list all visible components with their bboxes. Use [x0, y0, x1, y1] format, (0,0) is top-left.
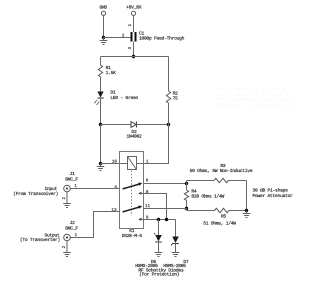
ground under D6: [155, 253, 163, 257]
svg-text:(For Protection): (For Protection): [139, 272, 179, 278]
svg-text:1N4002: 1N4002: [126, 134, 142, 140]
wire junction kink down to R5 row: [186, 209, 188, 211]
svg-text:J1: J1: [70, 171, 76, 177]
wire R1 to D1: [100, 77, 102, 92]
wire pin 6 stub: [144, 183, 187, 185]
ground under J1: [63, 192, 71, 208]
LED D1: [94, 89, 138, 105]
wire junction kink up to R3 row: [186, 181, 188, 184]
wire C1 bottom to top rail: [133, 42, 135, 57]
svg-text:8: 8: [146, 190, 149, 195]
relay fixed contact pin 9: [139, 218, 141, 220]
wire J2 to relay pin 13: [70, 212, 119, 238]
resistor R3: [187, 163, 253, 183]
wire D7 corner down: [175, 220, 177, 237]
wire D2 row right: [137, 124, 169, 126]
wire D2 row left: [101, 124, 132, 126]
wire GND terminal down: [103, 15, 105, 37]
svg-text:(From Transceiver): (From Transceiver): [13, 191, 58, 197]
svg-text:3: 3: [128, 47, 133, 50]
schottky diode D7: [171, 237, 178, 253]
relay K1 coil: [128, 157, 137, 170]
ground at attenuator output: [243, 211, 251, 218]
svg-text:1: 1: [128, 24, 133, 27]
relay K1 body: [120, 152, 144, 229]
svg-text:R5: R5: [221, 213, 227, 219]
ground under left branch: [97, 164, 105, 171]
svg-text:Power Attenuator: Power Attenuator: [253, 193, 294, 199]
wire pin 8 stub inner: [142, 193, 144, 195]
node: right D2 junction: [167, 123, 170, 126]
svg-text:GND: GND: [100, 5, 108, 11]
svg-text:50 Ohms, 5W Non-Inductive: 50 Ohms, 5W Non-Inductive: [190, 168, 253, 174]
svg-text:(To Transverter): (To Transverter): [20, 237, 60, 243]
wire +8V_RX down to C1: [133, 15, 135, 32]
svg-text:1: 1: [146, 160, 149, 165]
resistor R1: [98, 65, 116, 77]
node: pin6/R3/R4 junction: [185, 182, 188, 185]
relay dashed actuator line: [131, 171, 133, 216]
node: GND junction: [102, 36, 105, 39]
svg-text:51 Ohms, 1/4W: 51 Ohms, 1/4W: [203, 220, 236, 226]
ground under GND junction: [100, 38, 108, 45]
terminal +8V_RX: [126, 5, 142, 16]
schottky diode D6: [154, 233, 161, 253]
wire right branch top: [168, 57, 170, 92]
svg-text:BNC_F: BNC_F: [65, 176, 78, 182]
resistor R5: [187, 208, 247, 226]
ground under J2: [63, 241, 71, 257]
svg-text:found on the internet site: found on the internet site: [216, 102, 294, 108]
svg-text:4: 4: [114, 185, 117, 190]
connector J1 BNC_F: [62, 171, 78, 199]
node: D7 junction: [165, 218, 168, 221]
svg-text:75: 75: [173, 95, 179, 101]
wire top rail: [101, 56, 169, 58]
node: pin16 junction: [99, 162, 102, 165]
svg-text:+8V_RX: +8V_RX: [126, 5, 142, 11]
wire pin 9 row: [144, 219, 176, 221]
watermark: [216, 87, 294, 108]
resistor R2: [166, 91, 178, 103]
node: left D2 junction: [99, 123, 102, 126]
relay contact arm 4-6: [123, 183, 143, 189]
svg-text:D1: D1: [110, 89, 116, 95]
connector J2 BNC_F: [62, 220, 78, 248]
wire pin 9 stub inner: [142, 219, 144, 221]
wire pin 11 to junction: [144, 208, 187, 210]
svg-text:LED - Green: LED - Green: [110, 95, 138, 101]
node: pin11/R4/R5 junction: [185, 207, 188, 210]
svg-text:30 dB Pi-shape: 30 dB Pi-shape: [253, 188, 289, 194]
svg-text:1000p Feed-Through: 1000p Feed-Through: [139, 36, 185, 42]
wire pin1 inside stub: [137, 163, 144, 165]
ground under D7: [172, 253, 180, 257]
relay fixed contact pin 8: [139, 192, 141, 194]
svg-text:BNC_F: BNC_F: [65, 225, 78, 231]
wire J1 to relay pin 4: [70, 188, 119, 190]
node: D6 junction: [157, 218, 160, 221]
wire pin16 junction to relay coil: [101, 163, 128, 165]
wire left branch to pin16 junction: [100, 125, 102, 164]
resistor R4: [184, 184, 224, 209]
terminal GND: [100, 5, 108, 16]
svg-text:2: 2: [62, 197, 67, 200]
wire R2 to pin1 row: [144, 103, 169, 164]
svg-text:J2: J2: [70, 220, 76, 226]
svg-text:2: 2: [62, 245, 67, 248]
relay contact arm 13-11: [123, 206, 143, 212]
wire left branch upper: [100, 57, 102, 66]
node: attenuator ground junction: [245, 209, 248, 212]
svg-text:820 Ohms 1/4W: 820 Ohms 1/4W: [191, 194, 224, 200]
svg-text:2: 2: [122, 33, 125, 38]
svg-text:13: 13: [111, 208, 117, 213]
svg-text:R4: R4: [191, 188, 197, 194]
wire R3 right corner down: [246, 181, 248, 211]
svg-text:16: 16: [112, 160, 118, 165]
svg-text:6: 6: [146, 178, 149, 183]
node: top rail junction: [132, 55, 135, 58]
wire pin 8 L-shape down: [144, 194, 167, 220]
svg-text:1.5K: 1.5K: [106, 70, 117, 76]
svg-text:DS2E-M-5: DS2E-M-5: [122, 233, 143, 239]
capacitor C1 1000p Feed-Through: [122, 24, 185, 50]
wire D6 down: [158, 220, 160, 236]
diode D2 1N4002: [126, 122, 142, 140]
wire D1 to D2 row: [100, 98, 102, 125]
wire GND junction to C1 pin 2: [104, 37, 131, 39]
